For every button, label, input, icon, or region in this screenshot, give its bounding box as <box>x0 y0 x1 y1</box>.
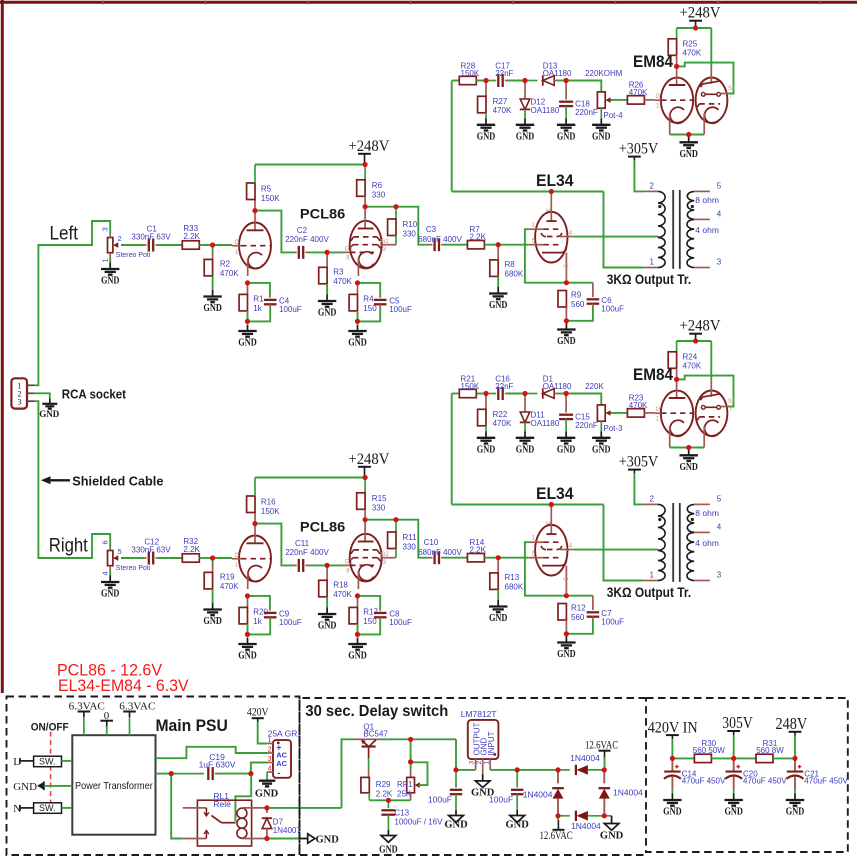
node (triode cathode) <box>245 593 250 598</box>
svg-text:EL34-EM84 - 6.3V: EL34-EM84 - 6.3V <box>58 677 189 695</box>
terminal N <box>13 803 33 815</box>
svg-text:R29: R29 <box>376 780 391 789</box>
ground (rectifier -) <box>255 772 279 799</box>
svg-text:GND: GND <box>379 845 398 856</box>
wire <box>557 80 566 82</box>
junction <box>363 475 368 480</box>
svg-text:R24: R24 <box>683 353 698 362</box>
svg-text:GND: GND <box>39 409 60 419</box>
svg-text:SW.: SW. <box>39 803 56 813</box>
svg-text:R25: R25 <box>683 40 698 49</box>
svg-text:GND: GND <box>318 308 337 319</box>
wire <box>62 807 73 809</box>
svg-text:330: 330 <box>372 191 386 200</box>
ground (regulator) <box>471 774 495 798</box>
wire <box>677 63 734 94</box>
svg-text:2: 2 <box>650 181 655 190</box>
wire <box>604 757 606 770</box>
svg-text:OA1180: OA1180 <box>531 106 560 115</box>
resistor R13 680K <box>490 558 524 592</box>
svg-text:GND: GND <box>444 820 468 831</box>
wire <box>212 276 214 290</box>
resistor R7 2,2K <box>467 225 486 249</box>
svg-text:470K: 470K <box>683 49 702 58</box>
svg-text:1N4004: 1N4004 <box>570 753 600 763</box>
svg-text:OA1180: OA1180 <box>543 382 572 391</box>
svg-text:+248V: +248V <box>348 451 390 468</box>
label EL34 <box>536 171 574 190</box>
wire <box>507 80 525 82</box>
svg-text:2: 2 <box>650 494 655 503</box>
regulator U1 LM7812T <box>461 709 499 774</box>
wire <box>497 276 499 287</box>
power +248V (EM84) <box>680 318 722 341</box>
capacitor C6 100uF <box>587 283 624 314</box>
svg-text:1: 1 <box>650 570 655 579</box>
ground <box>477 118 496 142</box>
node (EL34 anode) <box>549 189 554 194</box>
svg-text:8 ohm: 8 ohm <box>695 508 719 518</box>
junction <box>564 391 569 396</box>
svg-text:C13: C13 <box>394 809 409 818</box>
ground (pentode cathode) <box>348 325 367 349</box>
svg-text:GND: GND <box>506 820 530 831</box>
svg-text:R15: R15 <box>372 494 387 503</box>
svg-text:GND: GND <box>203 616 222 627</box>
svg-text:SW.: SW. <box>39 757 56 767</box>
pentode V1b (PCL86 pentode) <box>344 207 396 276</box>
svg-text:470K: 470K <box>220 269 239 278</box>
svg-text:GND: GND <box>489 300 508 311</box>
svg-text:GND: GND <box>516 131 535 142</box>
wire <box>247 311 249 322</box>
wire (RCA pin1 to Left channel) <box>35 221 111 385</box>
resistor R3 470K <box>319 252 353 286</box>
wire <box>711 757 756 759</box>
svg-text:1000uF / 16V: 1000uF / 16V <box>394 818 443 827</box>
wire <box>710 341 712 380</box>
svg-text:470K: 470K <box>333 277 352 286</box>
wire <box>255 524 294 566</box>
potentiometer Pot-4 <box>597 92 623 120</box>
ground (bridge -) <box>600 816 624 842</box>
svg-text:560 8W: 560 8W <box>756 746 784 755</box>
ground (EL34 cathode) <box>557 636 576 660</box>
junction <box>792 756 797 761</box>
svg-text:RP1: RP1 <box>397 780 413 789</box>
capacitor C7 100uF <box>587 596 624 627</box>
wire <box>490 769 558 771</box>
svg-text:GND: GND <box>679 149 698 160</box>
capacitor C21 470uF 450V <box>787 758 849 793</box>
svg-text:G1: G1 <box>345 560 354 566</box>
label 30 sec. Delay switch <box>305 703 448 720</box>
svg-text:1uF 630V: 1uF 630V <box>199 760 236 770</box>
svg-text:4: 4 <box>717 209 722 218</box>
junction <box>674 64 679 69</box>
resistor R20 <box>239 596 268 626</box>
svg-text:1N4004: 1N4004 <box>613 787 643 797</box>
junction <box>408 737 413 742</box>
wire <box>634 161 643 192</box>
ground <box>592 431 611 455</box>
ground (C13) <box>379 830 398 856</box>
ground (relay) <box>300 834 339 846</box>
svg-text:330: 330 <box>372 504 386 513</box>
svg-text:3: 3 <box>18 398 22 407</box>
node (pentode cathode) <box>355 280 360 285</box>
wire <box>677 376 734 407</box>
power 305V <box>722 713 752 735</box>
wire <box>476 80 486 82</box>
power +248V <box>348 451 390 478</box>
filter enclosure box <box>646 698 848 852</box>
ground (under R2) <box>203 290 222 314</box>
wire <box>604 505 644 581</box>
wire <box>309 564 328 566</box>
ground (under R13) <box>489 600 508 624</box>
svg-text:100uF: 100uF <box>389 618 412 627</box>
node (EL34 cathode) <box>564 593 569 598</box>
triode V1a (PCL86 triode) <box>232 211 272 277</box>
resistor R14 2,2K <box>467 538 486 562</box>
tube V1d EM84 (magic eye) <box>655 66 736 134</box>
svg-text:R19: R19 <box>220 573 235 582</box>
junction <box>686 445 691 450</box>
resistor R33 <box>182 224 200 249</box>
node (pentode anode) <box>363 204 368 209</box>
power 0 (center tap) <box>100 710 113 735</box>
svg-text:2,2K: 2,2K <box>470 233 487 242</box>
wire <box>248 620 271 634</box>
wire <box>358 283 381 296</box>
ground (under R19) <box>203 603 222 627</box>
svg-text:OA1180: OA1180 <box>543 69 572 78</box>
diode D1 OA1180 <box>525 375 572 399</box>
svg-text:G2: G2 <box>381 552 390 558</box>
resistor R24 470K <box>668 341 702 379</box>
ground <box>516 431 535 455</box>
svg-text:GND: GND <box>557 336 576 347</box>
capacitor C16 22nF <box>486 375 514 400</box>
diode D103 1N4004 (bridge left) <box>523 770 564 816</box>
resistor R5 150K <box>247 165 281 211</box>
svg-text:R12: R12 <box>571 604 586 613</box>
resistor R4 <box>349 283 377 313</box>
svg-text:+248V: +248V <box>680 318 722 335</box>
capacitor C19 1uF 630V <box>171 752 236 780</box>
power +305V <box>619 141 659 161</box>
junction <box>686 132 691 137</box>
wire <box>476 393 486 395</box>
wire <box>444 557 467 559</box>
wire (RCA pin3 to Right channel) <box>35 401 111 558</box>
power 420V IN <box>648 719 698 739</box>
svg-text:100uF: 100uF <box>279 618 302 627</box>
wire <box>248 596 270 609</box>
wire <box>365 520 428 558</box>
power +248V <box>348 138 390 165</box>
junction <box>693 25 698 30</box>
svg-text:2: 2 <box>268 747 272 754</box>
trimmer RP1 25K <box>397 770 420 800</box>
wire <box>733 735 735 758</box>
wire <box>566 620 593 634</box>
node (triode anode) <box>252 521 257 526</box>
junction <box>325 250 330 255</box>
junction <box>355 319 360 324</box>
svg-text:6: 6 <box>101 540 110 544</box>
junction <box>515 767 520 772</box>
wire (EL34 anode rail) <box>452 504 604 506</box>
svg-text:220K: 220K <box>585 382 604 391</box>
svg-text:Main PSU: Main PSU <box>156 716 228 735</box>
svg-text:GND: GND <box>592 444 611 455</box>
capacitor C5 100uF <box>374 296 412 315</box>
svg-text:6.3VAC: 6.3VAC <box>69 701 105 713</box>
svg-text:R1: R1 <box>253 295 264 304</box>
svg-text:420V: 420V <box>247 707 269 719</box>
wire <box>566 394 601 405</box>
junction <box>393 204 398 209</box>
wire <box>327 251 344 253</box>
svg-text:OA1180: OA1180 <box>531 419 560 428</box>
wire <box>410 762 412 770</box>
svg-text:680nF 400V: 680nF 400V <box>418 235 462 244</box>
svg-text:3KΩ Output Tr.: 3KΩ Output Tr. <box>607 272 692 287</box>
diode D11 OA1180 <box>520 394 560 432</box>
diode D12 OA1180 <box>520 81 560 119</box>
svg-text:Pot-3: Pot-3 <box>603 424 623 433</box>
label PCL86 heater note <box>57 662 162 680</box>
wire <box>452 80 460 82</box>
switch SW1 <box>34 756 62 767</box>
resistor R2 470K <box>204 253 239 279</box>
ground (RCA) <box>39 398 60 419</box>
wire <box>525 542 593 596</box>
svg-text:G2: G2 <box>381 239 390 245</box>
capacitor C1 <box>131 225 171 252</box>
wire <box>158 557 182 559</box>
svg-text:220nF: 220nF <box>575 421 598 430</box>
svg-text:470K: 470K <box>493 106 512 115</box>
ground (pentode cathode) <box>348 638 367 662</box>
svg-text:R11: R11 <box>403 533 418 542</box>
svg-text:R13: R13 <box>505 573 520 582</box>
svg-text:1: 1 <box>650 257 655 266</box>
junction <box>248 771 253 776</box>
wire <box>357 311 359 322</box>
potentiometer P1 (Stereo Poti) <box>101 227 151 262</box>
ground <box>663 794 682 818</box>
svg-text:150K: 150K <box>461 382 480 391</box>
svg-text:C2: C2 <box>297 226 308 235</box>
wire <box>109 258 111 263</box>
capacitor C101 100uF (reg out) <box>428 770 462 810</box>
resistor R12 560 <box>558 604 586 634</box>
svg-text:560: 560 <box>571 613 585 622</box>
delay enclosure box <box>300 698 647 855</box>
junction <box>564 318 569 323</box>
svg-text:S1: S1 <box>728 86 736 92</box>
ground <box>592 118 611 142</box>
svg-text:100uF: 100uF <box>279 305 302 314</box>
tube V2d EM84 (magic eye) <box>655 379 736 447</box>
junction <box>602 813 607 818</box>
junction <box>386 798 391 803</box>
junction <box>355 632 360 637</box>
svg-text:+305V: +305V <box>619 454 659 471</box>
svg-text:R9: R9 <box>571 291 582 300</box>
diode D7 1N4007 <box>262 808 302 839</box>
wire <box>248 307 271 321</box>
wire (feedback to EM84 net) <box>451 394 453 505</box>
svg-text:Right: Right <box>49 536 89 557</box>
ground (under R18) <box>318 608 337 632</box>
power +305V <box>619 454 659 474</box>
svg-text:Relé: Relé <box>213 799 231 809</box>
svg-text:R5: R5 <box>261 185 272 194</box>
svg-text:2.2K: 2.2K <box>183 545 200 554</box>
svg-text:30 sec. Delay switch: 30 sec. Delay switch <box>305 703 448 720</box>
PSU enclosure box <box>7 697 300 856</box>
svg-text:G: G <box>235 240 240 246</box>
potentiometer P2 (Stereo Poti) <box>101 540 151 575</box>
svg-text:3: 3 <box>268 756 272 763</box>
svg-text:1N4007: 1N4007 <box>273 826 302 835</box>
power 420V <box>247 707 269 722</box>
wire <box>634 474 643 505</box>
svg-text:GND: GND <box>348 338 367 349</box>
ground (EL34 cathode) <box>557 323 576 347</box>
svg-text:100uF: 100uF <box>389 305 412 314</box>
resistor R21 150K <box>459 375 480 398</box>
svg-text:S1: S1 <box>728 399 736 405</box>
svg-text:22nF: 22nF <box>495 69 513 78</box>
junction <box>555 813 560 818</box>
wire (EL34 g2 to output transformer tap) <box>573 549 659 551</box>
svg-text:1: 1 <box>101 258 110 262</box>
svg-text:4: 4 <box>717 522 722 531</box>
junction <box>264 836 269 841</box>
wire <box>773 757 795 759</box>
svg-text:R3: R3 <box>333 268 344 277</box>
svg-text:EM84: EM84 <box>633 365 673 384</box>
diode D13 OA1180 <box>525 62 572 86</box>
svg-text:560: 560 <box>571 300 585 309</box>
svg-text:220nF 400V: 220nF 400V <box>285 548 329 557</box>
svg-text:2,2K: 2,2K <box>470 546 487 555</box>
wire <box>248 283 270 296</box>
capacitor C14 470uF 450V <box>664 758 726 793</box>
svg-text:RCA socket: RCA socket <box>62 387 127 402</box>
svg-text:5: 5 <box>717 494 722 503</box>
svg-text:GND: GND <box>557 131 576 142</box>
svg-text:330: 330 <box>403 230 417 239</box>
wire (to relay common) <box>235 774 251 822</box>
svg-text:2.2K: 2.2K <box>376 790 393 799</box>
svg-text:305V: 305V <box>722 713 752 732</box>
svg-text:C3: C3 <box>426 225 437 234</box>
wire <box>109 571 111 576</box>
wire <box>212 589 214 603</box>
svg-text:GND: GND <box>663 807 682 818</box>
svg-text:C10: C10 <box>424 538 439 547</box>
wire <box>557 393 566 395</box>
svg-text:GND: GND <box>516 444 535 455</box>
svg-text:Shielded Cable: Shielded Cable <box>72 473 163 488</box>
resistor R30 560 50W <box>693 739 725 763</box>
svg-text:4 ohm: 4 ohm <box>695 225 719 235</box>
resistor R10 330 <box>388 207 418 245</box>
svg-text:+248V: +248V <box>348 138 390 155</box>
junction <box>670 756 675 761</box>
wire <box>507 393 525 395</box>
resistor R1 <box>239 283 264 313</box>
svg-text:LM7812T: LM7812T <box>461 709 497 719</box>
svg-text:GND: GND <box>724 807 743 818</box>
svg-text:470K: 470K <box>629 88 648 97</box>
wire <box>484 557 498 559</box>
label Shielded Cable <box>41 473 164 488</box>
power 6.3VAC (heater winding 1) <box>69 701 105 736</box>
svg-text:1N4004: 1N4004 <box>571 821 601 831</box>
capacitor C13 1000uF / 16V <box>381 800 443 830</box>
ground <box>444 810 468 831</box>
junction <box>264 805 269 810</box>
ground (triode cathode) <box>238 638 257 662</box>
wire <box>410 739 412 762</box>
node (pentode anode) <box>363 517 368 522</box>
node (triode cathode) <box>245 280 250 285</box>
resistor R29 2.2K <box>361 777 393 800</box>
svg-text:8 ohm: 8 ohm <box>695 195 719 205</box>
wire <box>35 393 50 398</box>
transistor Q1 BC547 <box>354 722 388 777</box>
svg-text:GND: GND <box>238 338 257 349</box>
wire <box>670 134 705 136</box>
wire <box>121 557 144 559</box>
svg-text:150K: 150K <box>261 507 280 516</box>
junction <box>483 78 488 83</box>
svg-text:GND: GND <box>316 835 340 846</box>
junction <box>169 771 174 776</box>
frame border (top) <box>0 1 857 5</box>
power 12.6VAC (top) <box>585 739 619 757</box>
resistor R28 150K <box>459 62 480 85</box>
svg-text:100uF: 100uF <box>489 795 513 805</box>
wire <box>251 763 267 774</box>
wire (relay coil drive) <box>267 807 342 809</box>
junction <box>363 162 368 167</box>
label PCL86 <box>300 519 346 535</box>
resistor R19 470K <box>204 566 239 592</box>
svg-text:5: 5 <box>717 181 722 190</box>
junction <box>245 632 250 637</box>
wire <box>677 27 712 29</box>
node (pentode cathode) <box>355 593 360 598</box>
ground (EM84 cathode) <box>679 449 698 473</box>
junction <box>210 242 215 247</box>
wire <box>604 192 644 268</box>
svg-text:25A GR.: 25A GR. <box>268 729 300 739</box>
ground <box>786 794 805 818</box>
svg-text:4 ohm: 4 ohm <box>695 538 719 548</box>
label EM84 <box>633 52 673 71</box>
capacitor C102 100uF (reg in) <box>489 770 523 810</box>
wire <box>365 207 428 245</box>
svg-text:GND: GND <box>238 651 257 662</box>
